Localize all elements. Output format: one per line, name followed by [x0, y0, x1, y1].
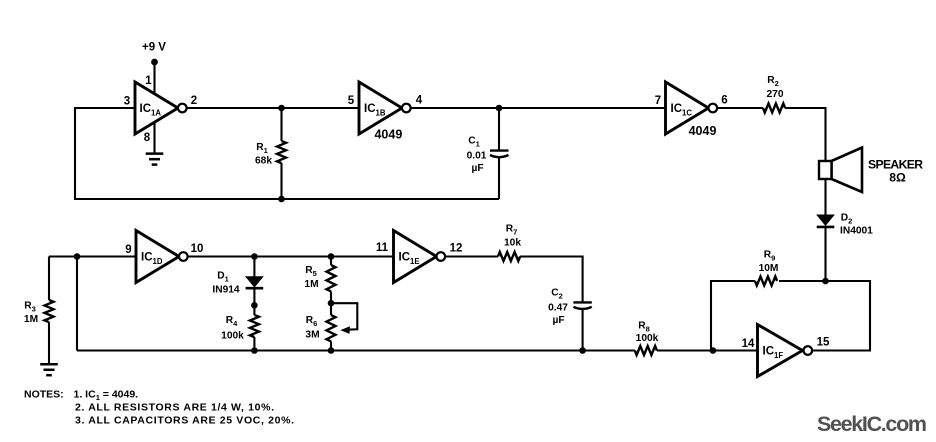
- resistor R8 100k: [635, 321, 659, 356]
- inverter IC1B: [359, 82, 411, 134]
- junction R6 bottom: [328, 347, 335, 354]
- junction D2 / R9 rail: [822, 278, 829, 285]
- wire IC1A pin 8 to ground: [153, 122, 155, 154]
- pin 10 label: [191, 243, 204, 255]
- svg-text:12: 12: [450, 243, 463, 255]
- wire R5 node to IC1E input: [331, 255, 394, 257]
- svg-text:5: 5: [348, 95, 355, 107]
- node +9V supply: [142, 42, 166, 66]
- pin 4 label: [416, 95, 423, 107]
- svg-text:µF: µF: [552, 315, 564, 326]
- junction R1 bottom: [278, 196, 285, 203]
- wire D2 to R9 rail: [824, 227, 826, 282]
- svg-text:3: 3: [124, 96, 130, 108]
- svg-text:IN914: IN914: [212, 285, 240, 296]
- svg-text:+9 V: +9 V: [142, 42, 166, 54]
- SeekIC.com watermark: [817, 412, 927, 436]
- capacitor C2 0.47uF: [548, 288, 592, 351]
- inverter IC1A: [135, 82, 187, 134]
- diode D1 IN914: [212, 257, 263, 316]
- junction R1 top: [278, 105, 285, 112]
- svg-text:1M: 1M: [24, 314, 38, 325]
- wire IC1F output feedback loop: [779, 281, 870, 351]
- svg-text:15: 15: [817, 337, 830, 349]
- resistor R3 1M: [24, 257, 54, 365]
- svg-text:4049: 4049: [689, 124, 717, 138]
- junction R5 top: [328, 253, 335, 260]
- pin 15 label: [817, 337, 830, 349]
- junction left node: [74, 253, 81, 260]
- diode D2 IN4001: [817, 213, 873, 237]
- pin 14 label: [742, 338, 755, 350]
- svg-text:1: 1: [145, 75, 152, 87]
- svg-text:0.47: 0.47: [548, 303, 568, 314]
- inverter IC1C: [666, 82, 718, 134]
- wire C1 node to IC1C input: [499, 107, 666, 109]
- wire IC1D output to D1 node: [188, 255, 255, 257]
- capacitor C1 0.01uF: [467, 108, 509, 199]
- svg-text:10k: 10k: [504, 238, 521, 249]
- svg-text:100k: 100k: [636, 333, 659, 344]
- IC1B part number 4049: [374, 128, 402, 142]
- resistor R7 10k: [498, 224, 521, 262]
- junction feedback left / bottom rail: [710, 347, 717, 354]
- svg-text:11: 11: [376, 242, 389, 254]
- pin 6 label: [721, 95, 727, 107]
- wire IC1E output to R7: [445, 255, 498, 257]
- resistor R2 270: [763, 75, 785, 113]
- pin 5 label: [348, 95, 355, 107]
- svg-text:9: 9: [125, 244, 131, 256]
- wire IC1A input feedback (left side): [75, 108, 282, 199]
- pin 8 label: [144, 132, 151, 144]
- wire speaker to D2: [824, 179, 826, 216]
- resistor R1 68k: [255, 108, 286, 199]
- svg-text:10: 10: [191, 243, 204, 255]
- wire bottom rail left segment: [77, 349, 254, 351]
- svg-text:SPEAKER: SPEAKER: [868, 158, 923, 172]
- inverter IC1F: [758, 325, 813, 377]
- svg-text:1M: 1M: [304, 279, 318, 290]
- junction R5 / R6 wiper tap: [328, 300, 335, 307]
- svg-text:100k: 100k: [221, 331, 244, 342]
- wire R1 node to IC1B input: [282, 107, 360, 109]
- pin 7 label: [655, 95, 661, 107]
- svg-text:IN4001: IN4001: [840, 226, 873, 237]
- svg-text:8Ω: 8Ω: [889, 171, 906, 185]
- pin 2 label: [191, 95, 197, 107]
- pin 12 label: [450, 243, 463, 255]
- wire IC1C output to R2: [717, 107, 763, 109]
- speaker 8 ohm: [819, 148, 923, 193]
- wire IC1A output to R1 node: [187, 107, 282, 109]
- svg-text:10M: 10M: [759, 263, 779, 274]
- junction C1 top: [496, 105, 503, 112]
- junction D1 cathode / R4: [251, 302, 258, 309]
- wire R2 to speaker: [785, 108, 825, 161]
- resistor R5 1M: [304, 257, 335, 316]
- pin 1 label: [145, 75, 152, 87]
- svg-text:4: 4: [416, 95, 423, 107]
- svg-text:NOTES:: NOTES:: [24, 389, 64, 401]
- wire R8 to IC1F input: [657, 349, 758, 351]
- pin 11 label: [376, 242, 389, 254]
- IC1C part number 4049: [689, 124, 717, 138]
- svg-text:2. ALL RESISTORS ARE 1/4 W, 10: 2. ALL RESISTORS ARE 1/4 W, 10%.: [75, 402, 274, 414]
- svg-text:2: 2: [191, 95, 197, 107]
- svg-text:µF: µF: [471, 163, 483, 174]
- inverter IC1D: [136, 231, 188, 283]
- pin 3 label: [124, 96, 130, 108]
- pin 9 label: [125, 244, 131, 256]
- svg-text:3. ALL CAPACITORS ARE 25 VOC,: 3. ALL CAPACITORS ARE 25 VOC, 20%.: [75, 415, 294, 427]
- svg-text:7: 7: [655, 95, 661, 107]
- ground under IC1A: [146, 154, 164, 165]
- svg-text:14: 14: [742, 338, 755, 350]
- svg-text:68k: 68k: [255, 156, 272, 167]
- wire IC1B output to C1 node: [411, 107, 499, 109]
- wire bottom rail middle segment: [254, 349, 634, 351]
- svg-text:4049: 4049: [374, 128, 402, 142]
- svg-text:3M: 3M: [305, 330, 319, 341]
- wire R3 to IC1D input: [49, 255, 136, 257]
- junction C2 bottom: [579, 347, 586, 354]
- potentiometer R6 3M: [305, 303, 357, 350]
- svg-text:270: 270: [767, 89, 784, 100]
- junction R4 bottom: [251, 347, 258, 354]
- resistor R9 10M: [755, 250, 778, 286]
- svg-text:1. IC1 = 4049.: 1. IC1 = 4049.: [74, 389, 139, 403]
- junction D1 top: [251, 253, 258, 260]
- wire +9V to IC1A pin 1: [153, 62, 155, 94]
- wire R7 to C2: [520, 257, 583, 303]
- wire R9 to feedback left vertical: [711, 281, 755, 351]
- inverter IC1E: [394, 231, 446, 283]
- ground under R3: [40, 364, 58, 375]
- svg-text:0.01: 0.01: [467, 151, 487, 162]
- wire D1 node to R5 node: [254, 255, 331, 257]
- wire left node down to bottom rail: [76, 257, 78, 351]
- svg-text:6: 6: [721, 95, 727, 107]
- notes: [24, 389, 294, 427]
- resistor R4 100k: [221, 315, 259, 351]
- svg-text:SeekIC.com: SeekIC.com: [817, 412, 927, 436]
- svg-text:8: 8: [144, 132, 151, 144]
- wire bottom rail R1 to C1: [282, 198, 500, 200]
